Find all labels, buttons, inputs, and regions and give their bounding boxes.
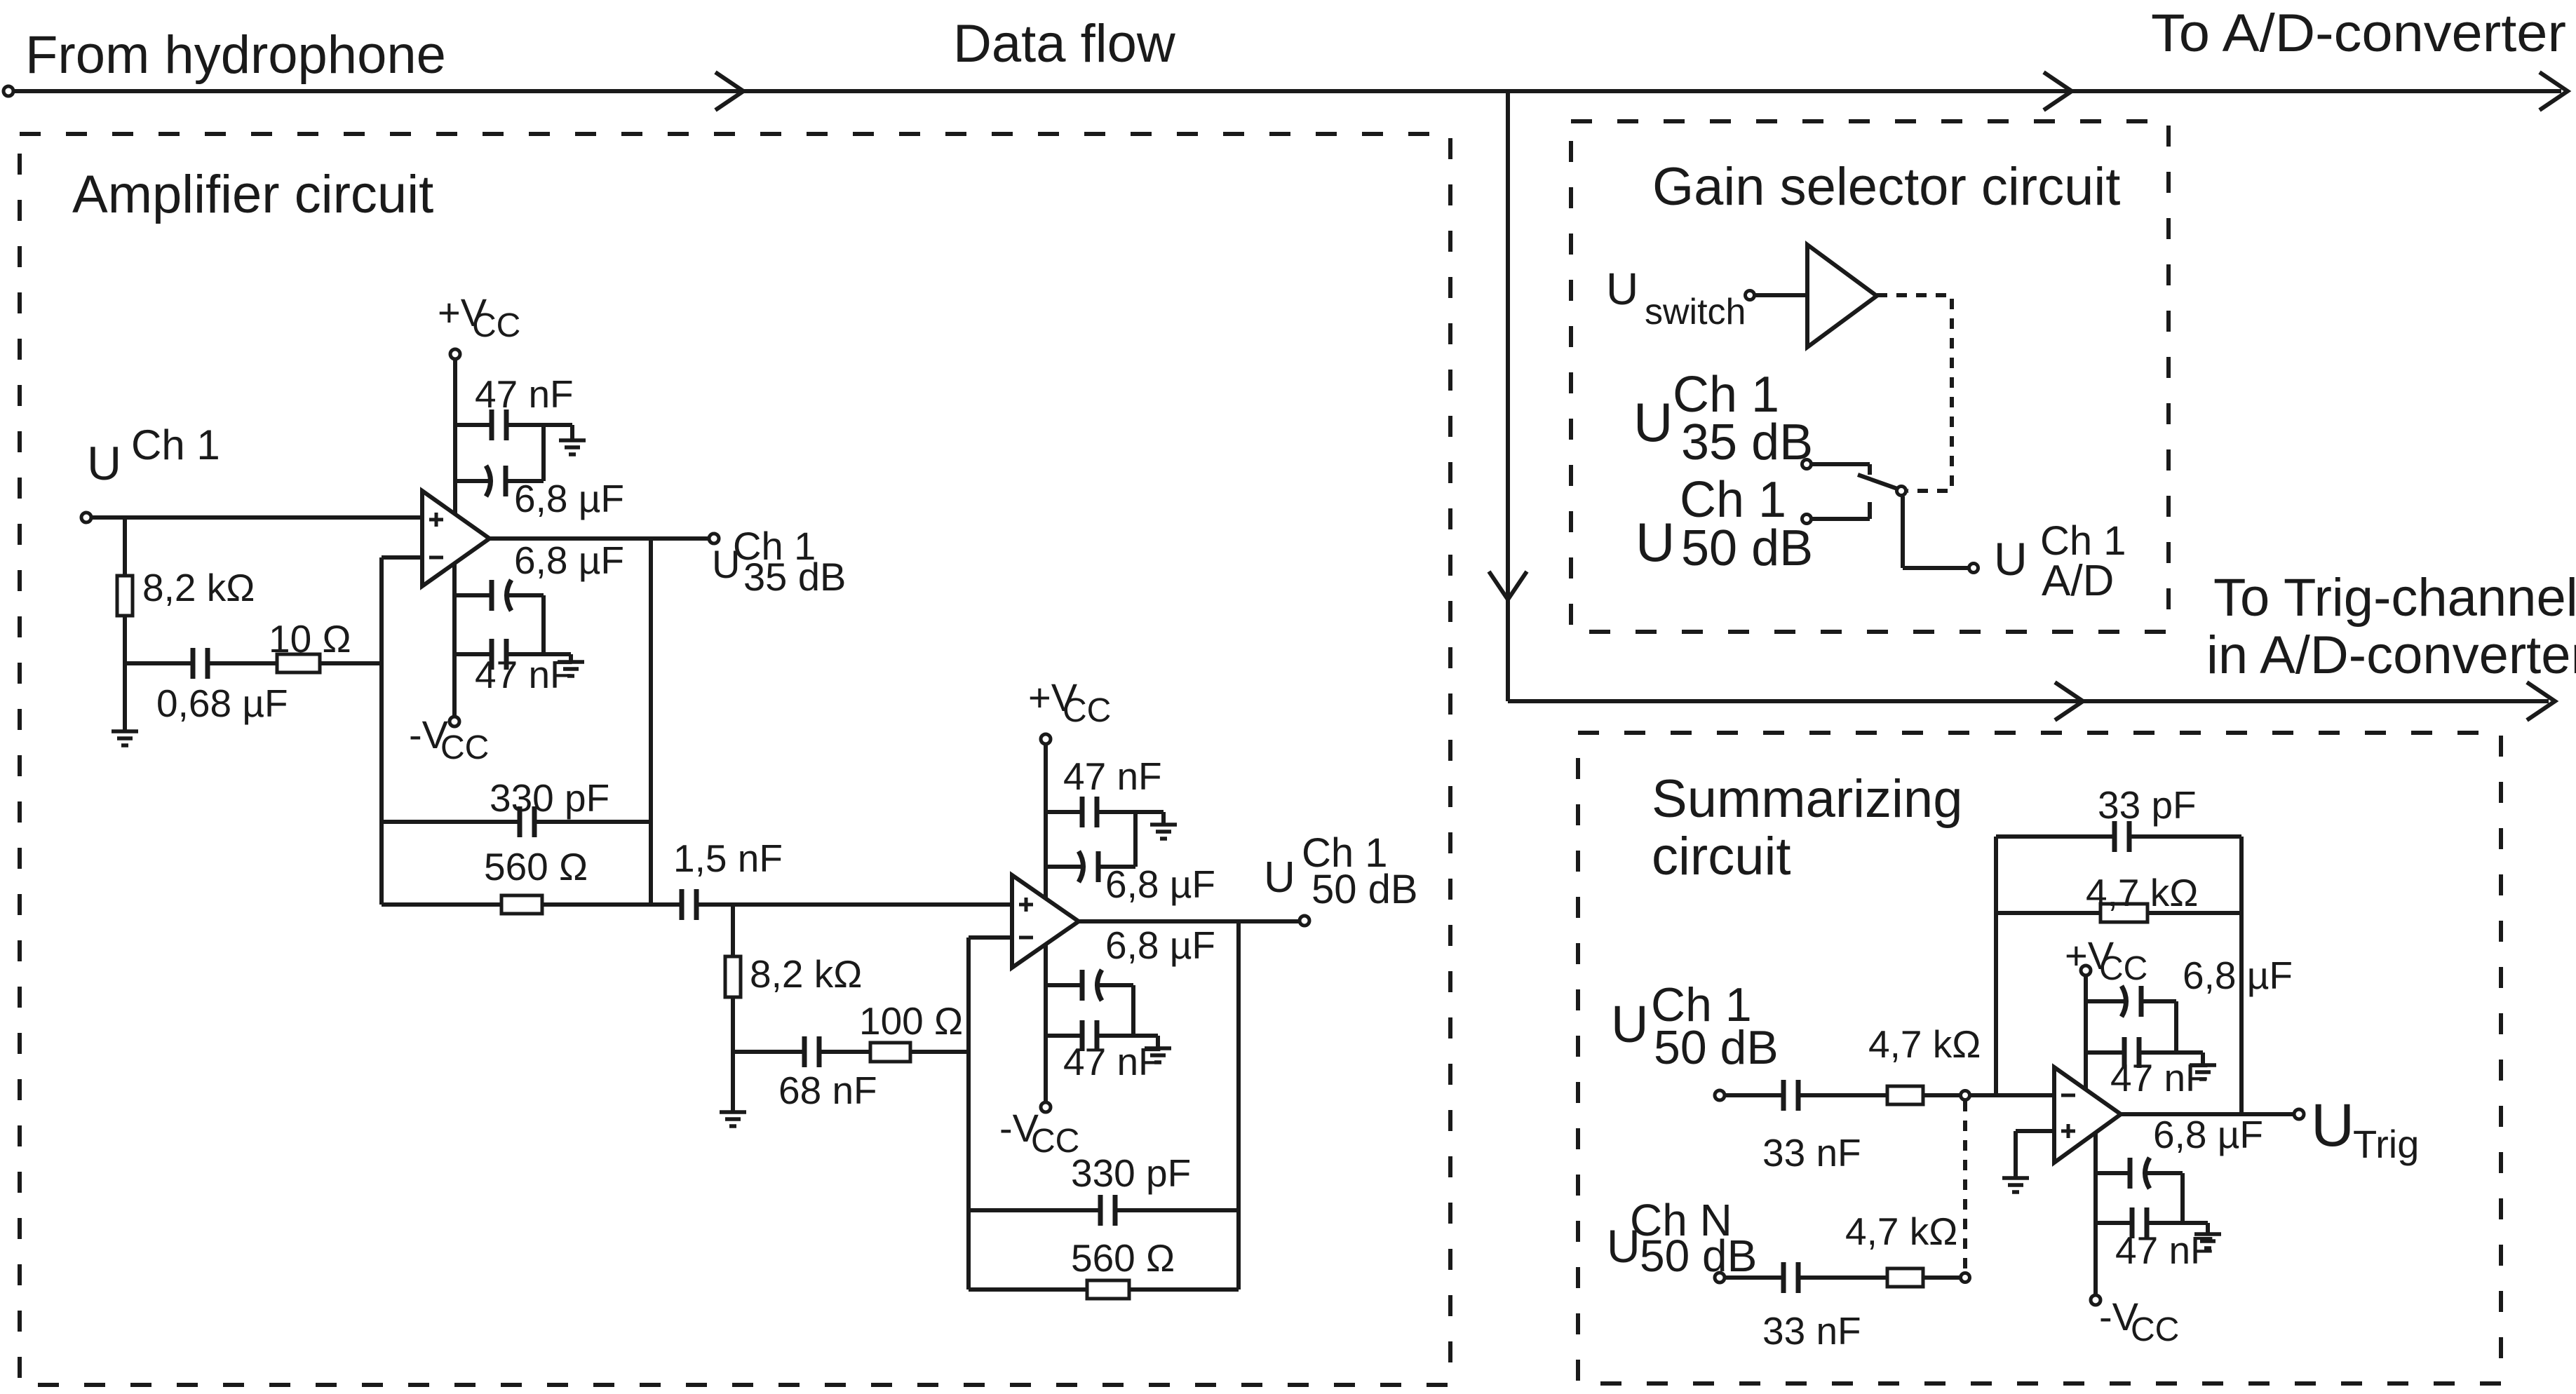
svg-text:U: U [1633, 391, 1673, 453]
svg-text:U: U [1636, 511, 1675, 573]
svg-text:10 Ω: 10 Ω [269, 617, 351, 661]
svg-text:CC: CC [472, 307, 520, 344]
svg-text:switch: switch [1645, 292, 1746, 332]
svg-text:50 dB: 50 dB [1654, 1021, 1779, 1074]
svg-text:8,2 kΩ: 8,2 kΩ [750, 952, 862, 996]
svg-text:6,8 µF: 6,8 µF [514, 539, 624, 582]
svg-text:Data flow: Data flow [953, 14, 1176, 74]
svg-text:Gain selector circuit: Gain selector circuit [1652, 157, 2120, 217]
svg-text:6,8 µF: 6,8 µF [1105, 923, 1215, 967]
svg-text:33 nF: 33 nF [1762, 1309, 1861, 1353]
svg-text:68 nF: 68 nF [778, 1069, 877, 1112]
svg-text:6,8 µF: 6,8 µF [514, 477, 624, 520]
svg-text:33 pF: 33 pF [2098, 783, 2197, 827]
svg-text:47 nF: 47 nF [475, 653, 574, 696]
svg-text:1,5 nF: 1,5 nF [673, 837, 783, 880]
svg-text:6,8 µF: 6,8 µF [1105, 862, 1215, 906]
svg-text:U: U [2311, 1092, 2354, 1159]
svg-text:CC: CC [2099, 950, 2147, 987]
svg-text:circuit: circuit [1652, 827, 1791, 886]
svg-text:U: U [87, 437, 121, 490]
svg-text:100 Ω: 100 Ω [859, 999, 963, 1043]
svg-text:A/D: A/D [2042, 557, 2114, 605]
svg-text:From hydrophone: From hydrophone [25, 25, 446, 85]
svg-text:U: U [1611, 995, 1648, 1053]
svg-text:Trig: Trig [2353, 1122, 2419, 1166]
svg-text:To Trig-channel: To Trig-channel [2213, 568, 2576, 628]
svg-text:35 dB: 35 dB [1681, 414, 1813, 471]
svg-text:To A/D-converter: To A/D-converter [2151, 4, 2566, 63]
svg-text:0,68 µF: 0,68 µF [156, 682, 288, 725]
svg-text:Ch 1: Ch 1 [1680, 472, 1786, 528]
svg-text:33 nF: 33 nF [1762, 1131, 1861, 1175]
svg-text:47 nF: 47 nF [1063, 754, 1162, 798]
svg-text:330 pF: 330 pF [1071, 1151, 1191, 1195]
svg-text:CC: CC [1031, 1123, 1079, 1160]
svg-text:CC: CC [1063, 692, 1111, 729]
svg-text:U: U [1606, 264, 1638, 314]
svg-text:560 Ω: 560 Ω [1071, 1236, 1175, 1280]
svg-text:47 nF: 47 nF [475, 372, 574, 416]
svg-text:47 nF: 47 nF [2110, 1056, 2209, 1099]
svg-text:4,7 kΩ: 4,7 kΩ [1868, 1022, 1981, 1066]
svg-text:4,7 kΩ: 4,7 kΩ [2086, 871, 2198, 914]
svg-text:47 nF: 47 nF [1063, 1040, 1162, 1083]
svg-text:CC: CC [2131, 1311, 2179, 1348]
svg-text:50 dB: 50 dB [1640, 1231, 1757, 1281]
svg-text:8,2 kΩ: 8,2 kΩ [142, 566, 255, 609]
svg-text:in A/D-converter: in A/D-converter [2206, 625, 2576, 685]
svg-text:6,8 µF: 6,8 µF [2183, 954, 2293, 997]
svg-text:Summarizing: Summarizing [1652, 769, 1962, 829]
svg-text:35 dB: 35 dB [743, 555, 846, 599]
svg-text:CC: CC [440, 729, 489, 766]
svg-text:Amplifier circuit: Amplifier circuit [72, 165, 433, 224]
svg-text:U: U [1994, 533, 2028, 585]
svg-text:4,7 kΩ: 4,7 kΩ [1845, 1210, 1957, 1253]
svg-text:U: U [1264, 853, 1295, 902]
svg-text:560 Ω: 560 Ω [484, 845, 588, 888]
svg-text:Ch 1: Ch 1 [131, 421, 220, 468]
svg-text:6,8 µF: 6,8 µF [2153, 1113, 2263, 1156]
svg-text:47 nF: 47 nF [2115, 1229, 2214, 1272]
svg-text:50 dB: 50 dB [1311, 867, 1418, 912]
svg-text:330 pF: 330 pF [490, 776, 609, 820]
svg-text:50 dB: 50 dB [1681, 520, 1813, 576]
